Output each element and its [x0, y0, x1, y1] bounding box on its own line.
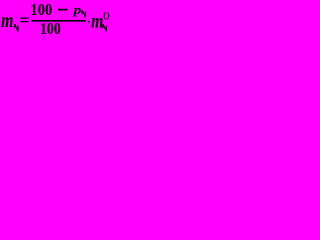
svg-text:100: 100	[40, 20, 61, 39]
svg-text:=: =	[20, 10, 30, 30]
variable m (right side)	[91, 10, 103, 32]
variable p	[72, 3, 82, 18]
magenta background	[0, 0, 114, 41]
numerator 100	[30, 1, 52, 19]
subscript N of right m	[102, 24, 107, 32]
equals sign	[20, 10, 30, 30]
minus sign	[57, 0, 69, 23]
svg-text:m: m	[91, 10, 103, 32]
subscript N of p	[81, 10, 86, 17]
subscript N of left m	[14, 24, 19, 32]
variable m (left side)	[1, 9, 13, 33]
denominator 100	[40, 20, 61, 39]
svg-text:m: m	[1, 9, 13, 33]
svg-text:0: 0	[103, 9, 110, 22]
multiplication dot	[88, 21, 90, 23]
superscript 0 of right m	[103, 9, 110, 22]
fraction bar	[32, 20, 87, 22]
svg-text:100: 100	[30, 1, 52, 19]
